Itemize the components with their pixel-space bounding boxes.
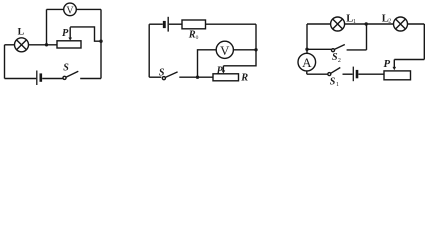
svg-text:0: 0 [196, 35, 199, 41]
wire battery to switch [42, 78, 63, 80]
wire battery to resistor R0 [169, 23, 182, 25]
svg-text:S: S [330, 76, 336, 87]
svg-text:2: 2 [388, 18, 391, 24]
wire right vertical [100, 9, 102, 78]
wire voltmeter left tap vertical [46, 9, 48, 44]
wire S1 contact to battery [343, 73, 353, 75]
wire left vertical [4, 45, 6, 79]
battery B1 [37, 71, 41, 86]
svg-text:V: V [220, 44, 230, 58]
wire lamp2 right to right vertical [408, 23, 425, 25]
node wiper wire / right vertical [99, 40, 102, 43]
wire top left segment [307, 23, 331, 25]
node S2 branch tap [305, 48, 308, 51]
wire left vertical [148, 24, 150, 77]
wire wiper to right vertical [70, 27, 101, 41]
wire bottom left to battery [5, 78, 37, 80]
wire lamp left to left vertical [5, 44, 15, 46]
lamp L [15, 27, 29, 52]
wire between lamps [345, 23, 394, 25]
rheostat R body [213, 72, 248, 83]
wire left vertical to ammeter [306, 24, 308, 53]
svg-text:2: 2 [338, 58, 341, 64]
resistor R0 [182, 20, 206, 41]
wire switch contact to rheostat R [179, 76, 213, 78]
svg-text:V: V [66, 5, 74, 16]
node voltmeter right / right vertical [254, 48, 257, 51]
battery B3 [353, 67, 357, 82]
svg-text:P: P [62, 28, 69, 39]
wire wiper step to right vertical [394, 59, 424, 61]
svg-text:R: R [188, 29, 196, 40]
svg-text:A: A [302, 55, 312, 70]
wire resistor to top right corner [206, 23, 257, 25]
svg-text:P: P [384, 58, 391, 70]
svg-text:L: L [18, 27, 25, 38]
rheostat P1 wiper arrow [62, 27, 72, 40]
wire voltmeter right lead [233, 49, 256, 51]
node voltmeter left tap [196, 76, 199, 79]
node top junction [365, 22, 368, 25]
switch S [63, 63, 78, 80]
rheostat P1 body [57, 41, 81, 48]
voltmeter V2 [216, 41, 233, 58]
switch S1 [328, 68, 341, 89]
rheostat P3 body [384, 71, 411, 80]
wire bottom to S1 [307, 73, 328, 75]
svg-text:1: 1 [336, 82, 339, 88]
wire S2 branch left [307, 48, 331, 50]
wire ammeter bottom stub [306, 71, 308, 74]
battery B2 [164, 17, 168, 32]
wire right vertical [423, 24, 425, 60]
svg-text:S: S [63, 63, 69, 74]
switch S2 [332, 45, 345, 64]
wire lamp right to rheostat [29, 44, 58, 46]
wire S2 branch right vertical up [366, 24, 368, 50]
wire switch contact to bottom right corner [80, 78, 101, 80]
node junction lamp/rheostat/voltmeter tap [45, 43, 48, 46]
wire battery to rheostat [358, 73, 384, 75]
rheostat R wiper arrow [217, 65, 226, 76]
switch S (circuit 2) [159, 67, 178, 79]
wire bottom left to switch [149, 76, 161, 78]
rheostat P3 wiper arrow [384, 58, 397, 70]
wire voltmeter left tap up [198, 50, 217, 77]
svg-text:R: R [240, 72, 248, 83]
ammeter A [298, 53, 316, 71]
svg-text:P: P [217, 65, 224, 76]
wire right vertical to wiper [223, 50, 256, 66]
lamp L1 [331, 14, 356, 31]
lamp L2 [382, 13, 408, 31]
voltmeter V1 [64, 3, 77, 16]
wire voltmeter right lead [76, 8, 101, 10]
wire S2 contact to right [347, 49, 367, 51]
wire voltmeter left lead [47, 8, 64, 10]
svg-text:S: S [159, 67, 165, 78]
wire top left segment [149, 23, 163, 25]
wire right vertical upper [255, 24, 257, 50]
